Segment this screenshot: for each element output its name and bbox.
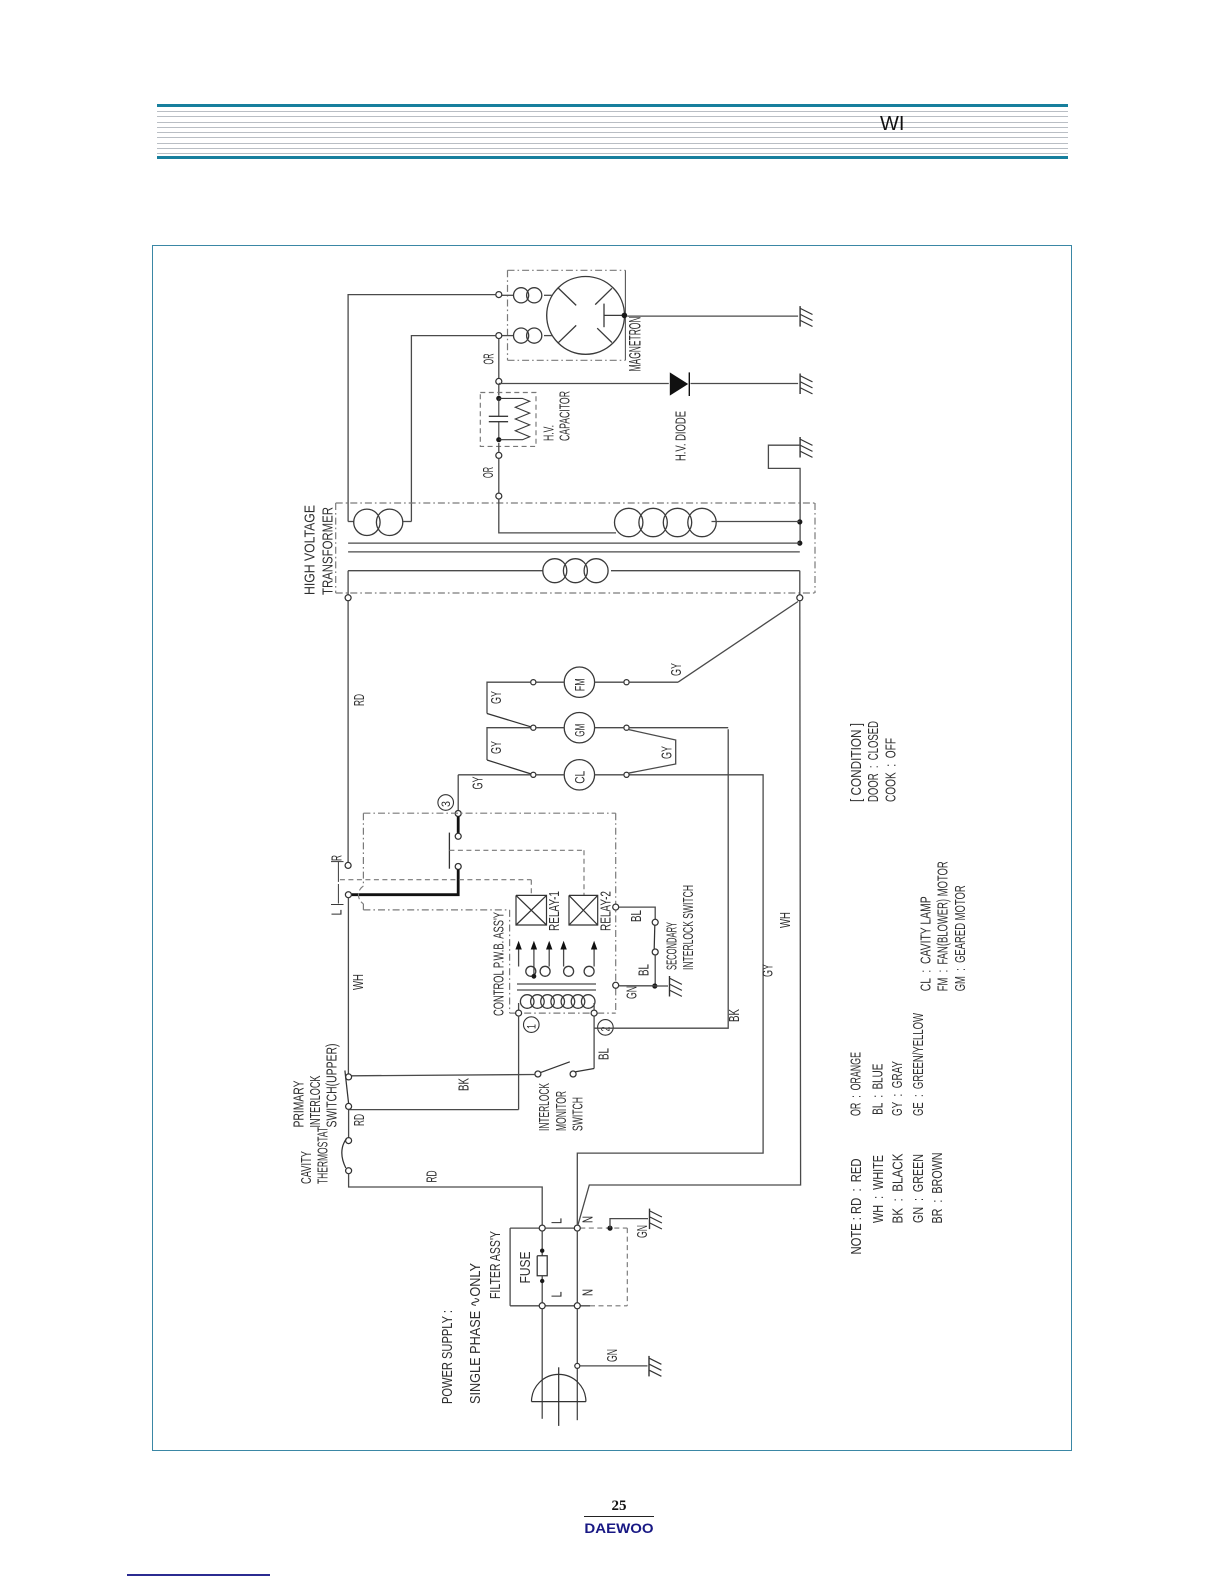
svg-text:[ CONDITION ]: [ CONDITION ]	[848, 723, 865, 802]
svg-text:OR : ORANGE: OR : ORANGE	[847, 1052, 864, 1116]
svg-text:GM : GEARED MOTOR: GM : GEARED MOTOR	[952, 885, 969, 991]
svg-text:FM: FM	[571, 678, 587, 691]
svg-text:N: N	[579, 1289, 596, 1296]
svg-text:CAPACITOR: CAPACITOR	[557, 391, 574, 441]
svg-text:OR: OR	[480, 353, 497, 364]
svg-text:GN: GN	[604, 1349, 621, 1362]
svg-text:N: N	[579, 1216, 596, 1223]
svg-text:INTERLOCK SWITCH: INTERLOCK SWITCH	[680, 885, 697, 970]
svg-text:GN : GREEN: GN : GREEN	[910, 1154, 927, 1223]
svg-text:INTERLOCK: INTERLOCK	[307, 1076, 324, 1128]
svg-text:3: 3	[439, 801, 453, 807]
svg-text:CAVITY: CAVITY	[298, 1151, 315, 1184]
svg-text:DOOR : CLOSED: DOOR : CLOSED	[865, 721, 882, 802]
svg-text:L: L	[328, 910, 345, 916]
svg-text:GE : GREEN/YELLOW: GE : GREEN/YELLOW	[910, 1012, 927, 1116]
svg-text:BL : BLUE: BL : BLUE	[869, 1064, 886, 1115]
svg-text:MAGNETRON: MAGNETRON	[625, 317, 644, 372]
svg-text:GY: GY	[658, 746, 675, 759]
svg-text:BR : BROWN: BR : BROWN	[929, 1153, 946, 1224]
svg-text:GY: GY	[488, 691, 505, 704]
svg-text:BL: BL	[635, 964, 652, 976]
svg-text:RD: RD	[423, 1170, 440, 1182]
svg-text:WH: WH	[777, 912, 794, 928]
svg-text:L: L	[548, 1292, 565, 1298]
svg-text:HIGH VOLTAGE: HIGH VOLTAGE	[301, 505, 318, 595]
svg-text:CL : CAVITY LAMP: CL : CAVITY LAMP	[917, 896, 934, 991]
svg-text:BL: BL	[596, 1048, 613, 1060]
svg-text:1: 1	[525, 1024, 539, 1029]
svg-text:RELAY-2: RELAY-2	[598, 891, 615, 931]
svg-text:H.V. DIODE: H.V. DIODE	[672, 411, 689, 461]
svg-text:GY: GY	[469, 777, 486, 790]
svg-text:BK: BK	[726, 1009, 743, 1022]
svg-text:GY: GY	[488, 741, 505, 754]
svg-text:CONTROL P.W.B. ASS'Y: CONTROL P.W.B. ASS'Y	[490, 912, 507, 1016]
svg-text:INTERLOCK: INTERLOCK	[536, 1083, 553, 1131]
svg-text:THERMOSTAT: THERMOSTAT	[314, 1127, 331, 1184]
svg-text:BK: BK	[455, 1078, 472, 1091]
svg-text:RD: RD	[351, 694, 368, 706]
svg-text:2: 2	[599, 1026, 613, 1031]
svg-text:RD: RD	[351, 1114, 368, 1126]
svg-text:GY: GY	[668, 663, 685, 676]
svg-text:COOK : OFF: COOK : OFF	[883, 738, 900, 802]
svg-text:SECONDARY: SECONDARY	[663, 922, 680, 970]
svg-text:BL: BL	[628, 910, 645, 922]
svg-text:SWITCH(UPPER): SWITCH(UPPER)	[323, 1043, 340, 1127]
svg-text:BK : BLACK: BK : BLACK	[889, 1154, 906, 1224]
svg-text:SINGLE PHASE ∿ONLY: SINGLE PHASE ∿ONLY	[467, 1263, 484, 1404]
svg-text:OR: OR	[480, 467, 497, 478]
svg-text:WH: WH	[350, 974, 367, 990]
svg-text:FILTER ASS'Y: FILTER ASS'Y	[487, 1231, 504, 1299]
svg-text:MONITOR: MONITOR	[553, 1091, 570, 1131]
svg-text:NOTE : RD : RED: NOTE : RD : RED	[848, 1158, 865, 1254]
svg-text:CL: CL	[571, 771, 587, 784]
svg-text:GY: GY	[760, 964, 777, 977]
svg-text:GY : GRAY: GY : GRAY	[889, 1061, 906, 1116]
svg-text:GM: GM	[571, 724, 587, 737]
svg-text:FUSE: FUSE	[517, 1252, 534, 1284]
svg-text:TRANSFORMER: TRANSFORMER	[319, 507, 336, 595]
svg-text:WH : WHITE: WH : WHITE	[870, 1155, 887, 1223]
svg-text:GN: GN	[623, 986, 640, 999]
svg-text:FM : FAN(BLOWER) MOTOR: FM : FAN(BLOWER) MOTOR	[935, 861, 952, 991]
svg-text:SWITCH: SWITCH	[570, 1097, 587, 1131]
svg-text:H.V.: H.V.	[541, 425, 558, 441]
svg-text:GN: GN	[634, 1225, 651, 1238]
svg-text:RELAY-1: RELAY-1	[546, 891, 563, 931]
svg-text:PRIMARY: PRIMARY	[290, 1081, 307, 1128]
svg-text:L: L	[548, 1218, 565, 1224]
svg-text:R: R	[328, 855, 345, 861]
svg-text:POWER SUPPLY :: POWER SUPPLY :	[439, 1310, 456, 1404]
